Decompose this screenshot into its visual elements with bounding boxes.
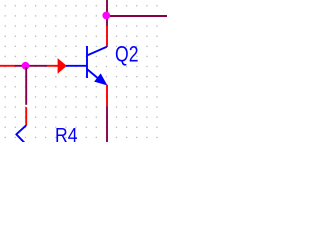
- node: junction at top (magenta): [102, 12, 110, 20]
- arrow: red signal-direction arrowhead pointing right: [58, 59, 66, 73]
- transistor Q2 (NPN, blue symbol): [66, 46, 107, 83]
- collector diagonal: [88, 47, 107, 56]
- wire: left horizontal red segment from left edge: [0, 65, 15, 67]
- wire: top vertical net segment (maroon): [106, 0, 108, 26]
- base bar: [86, 46, 88, 78]
- wire: maroon horizontal segment through junction: [15, 65, 47, 67]
- svg-text:R4: R4: [55, 125, 78, 142]
- node: junction at left (magenta): [22, 62, 30, 70]
- wire: red horizontal segment to arrow: [47, 65, 59, 67]
- wire: emitter maroon wire to bottom edge: [106, 106, 108, 142]
- wire: top horizontal net segment to right edge (maroon): [105, 15, 167, 17]
- wire: emitter red wire segment (selected): [106, 85, 108, 106]
- resistor R4 (partial zigzag, blue): [16, 126, 26, 143]
- wire: red vertical segment (resistor pin, selected): [25, 107, 27, 126]
- wire: collector wire segment (red, selected): [106, 26, 108, 47]
- emitter arrowhead (blue): [95, 74, 106, 84]
- emitter diagonal: [88, 70, 104, 83]
- wire: maroon vertical below left junction: [25, 67, 27, 105]
- svg-text:Q2: Q2: [115, 41, 139, 66]
- base lead: [66, 65, 87, 67]
- grid pattern (decorative): [4, 5, 157, 138]
